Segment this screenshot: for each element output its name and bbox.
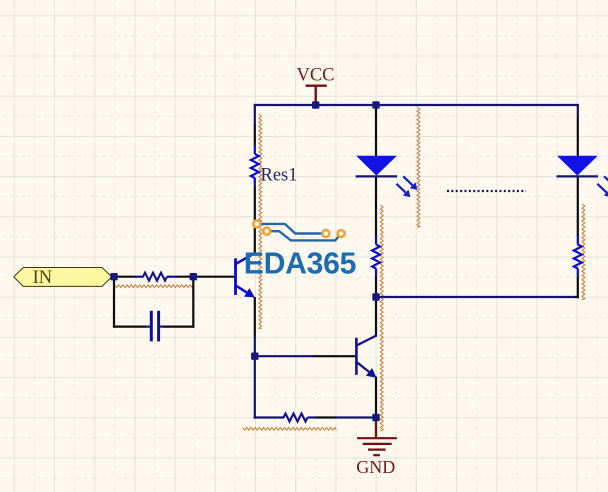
dotted continuation line between LED branches: [447, 190, 526, 192]
resistor R5 pin right: [308, 416, 316, 418]
wire: R5 to mid (black part): [316, 416, 337, 418]
transistor Q2 base bar: [355, 338, 358, 375]
LED D1 triangle: [356, 156, 397, 176]
wire: right branch vertical corner (navy part): [577, 104, 579, 117]
wire: LED D1 branch top vertical: [375, 104, 377, 157]
resistor R4 pin upper: [577, 235, 579, 245]
resistor R4 pin lower: [577, 269, 579, 278]
wire: Q2 collector vertical: [375, 296, 377, 337]
resistor R3 zigzag: [372, 245, 380, 269]
port IN body: [14, 268, 112, 287]
wire: input junction to R2 (black): [114, 276, 136, 278]
LED D1 light arrow 2: [403, 176, 412, 185]
LED D1 light arrow 1: [397, 184, 406, 193]
ground symbol bar 4: [373, 454, 380, 456]
wire: R3 to junction node B: [375, 277, 377, 297]
wire: Q2 emitter vertical to GND node: [375, 377, 377, 419]
junction at VCC node: [312, 101, 319, 108]
svg-text:VCC: VCC: [296, 66, 334, 86]
LED D2 cathode bar: [557, 175, 599, 177]
svg-text:IN: IN: [33, 268, 53, 288]
power port VCC stem: [315, 86, 317, 104]
svg-text:EDA365: EDA365: [244, 248, 356, 281]
wire: bottom-right corner stub (black): [575, 296, 579, 298]
wire: mid to GND junction (navy part): [336, 416, 376, 418]
wire: bottom rail between LED branches: [376, 296, 579, 298]
wire: cap loop right vertical up to junction 2: [192, 277, 194, 328]
wire: Q2 base row navy part: [255, 355, 313, 357]
wire: junction 2 to Q1 base: [193, 276, 234, 278]
transistor Q2 collector stroke: [357, 336, 377, 346]
wire: left branch vertical (black part above R1): [254, 125, 256, 147]
capacitor C1 pin left: [146, 326, 151, 328]
ERC marker squiggle S1 along left branch: [259, 114, 262, 329]
capacitor C1 left plate: [150, 311, 153, 342]
junction node after R2: [190, 273, 197, 280]
transistor Q1 emitter stroke with arrow: [236, 286, 247, 293]
resistor R1 zigzag: [251, 154, 259, 178]
logo trace upper: [257, 224, 326, 234]
capacitor C1 pin right: [160, 326, 165, 328]
logo pad 3: [322, 230, 329, 237]
wire: left branch down to bottom row: [254, 356, 256, 418]
wire: Q1 emitter down to junction (navy part): [254, 337, 256, 357]
resistor R2 pin right: [167, 276, 177, 278]
ERC marker squiggle S6 under bottom resistor wire: [243, 427, 337, 430]
transistor Q1 base bar: [234, 258, 237, 295]
ground symbol bar 1: [357, 437, 397, 439]
resistor R2 pin left: [135, 276, 144, 278]
junction GND node: [372, 414, 379, 421]
wire: right branch vertical to LED D2 (black): [577, 117, 579, 157]
resistor R1 pin lower: [254, 178, 256, 187]
ERC marker squiggle S4 along resistor R4 branch: [582, 204, 585, 300]
junction node B (bottom rail): [372, 293, 379, 300]
LED D2 triangle: [557, 156, 598, 176]
svg-text:GND: GND: [356, 457, 395, 477]
junction top of LED D1 branch: [372, 101, 379, 108]
wire: cap loop bottom left horizontal: [113, 326, 147, 328]
ERC marker squiggle S2 right of LED D1: [417, 107, 420, 227]
transistor Q1 collector stroke: [236, 253, 255, 264]
LED D2 light arrow 1: [597, 184, 606, 193]
svg-text:Res1: Res1: [261, 166, 298, 186]
ground symbol bar 3: [368, 449, 386, 451]
LED D1 cathode bar: [356, 175, 398, 177]
LED D2 light arrow 2: [604, 176, 608, 185]
wire: top rail VCC horizontal: [254, 104, 579, 106]
wire: R4 down to bottom rail corner: [577, 277, 579, 298]
resistor R3 pin lower: [375, 269, 377, 278]
wire: Q1 emitter down (black part): [254, 297, 256, 337]
wire: left branch vertical black below R1 to Q1 collector: [254, 187, 256, 254]
transistor Q2 emitter stroke with arrow: [357, 362, 369, 372]
wire: cap loop bottom right horizontal: [164, 326, 195, 328]
resistor R5 zigzag: [284, 414, 308, 422]
wire: D2 cathode to resistor R4: [577, 177, 579, 237]
wire: bottom row to resistor R5: [254, 416, 284, 418]
logo trace lower: [267, 231, 341, 240]
resistor R3 pin upper: [375, 235, 377, 245]
wire: Q2 base row black part: [313, 355, 355, 357]
resistor R1 pin upper: [254, 145, 256, 154]
junction Q2 base node: [251, 353, 258, 360]
wire: capacitor loop left vertical: [113, 277, 115, 328]
wire: R2 to node junction 2: [177, 276, 194, 278]
resistor R2 zigzag: [143, 273, 167, 281]
junction node A (port IN): [110, 273, 117, 280]
logo pad 1: [253, 220, 260, 227]
logo pad 4: [338, 230, 345, 237]
ERC marker squiggle S5 under input wire: [115, 285, 193, 288]
resistor R4 zigzag: [574, 245, 582, 269]
wire: left branch vertical upper (navy part): [254, 104, 256, 125]
wire: D1 cathode to resistor R3: [375, 177, 377, 237]
ERC marker squiggle S3 along emitter branch: [380, 205, 383, 431]
ground symbol bar 2: [363, 443, 392, 445]
logo pad 2: [263, 228, 270, 235]
ground symbol GND stem: [375, 418, 377, 438]
power port VCC bar: [306, 84, 327, 86]
capacitor C1 right plate: [157, 311, 160, 342]
